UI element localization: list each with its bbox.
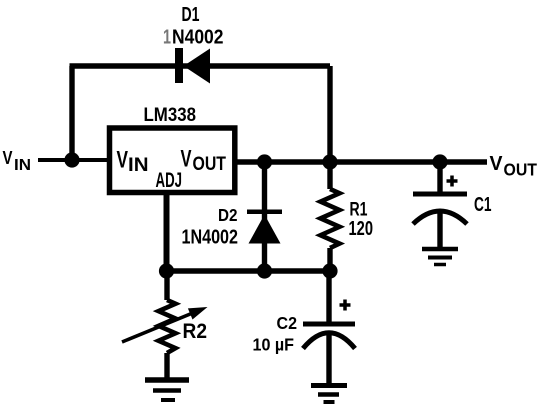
svg-text:IN: IN <box>14 157 31 174</box>
svg-text:10 µF: 10 µF <box>253 335 295 355</box>
svg-text:1N4002: 1N4002 <box>182 226 239 249</box>
svg-text:1: 1 <box>163 27 171 49</box>
svg-text:C2: C2 <box>277 313 298 333</box>
svg-text:C1: C1 <box>474 194 492 216</box>
svg-text:V: V <box>3 148 13 168</box>
svg-text:V: V <box>181 146 192 173</box>
svg-text:V: V <box>490 153 504 175</box>
svg-text:D1: D1 <box>182 4 200 26</box>
svg-text:120: 120 <box>349 218 374 240</box>
svg-text:IN: IN <box>128 155 149 176</box>
svg-text:OUT: OUT <box>504 159 538 179</box>
svg-text:OUT: OUT <box>193 154 227 175</box>
svg-text:LM338: LM338 <box>144 104 197 126</box>
svg-text:R2: R2 <box>183 320 208 343</box>
svg-text:D2: D2 <box>218 205 238 225</box>
svg-text:ADJ: ADJ <box>156 168 183 192</box>
svg-text:N4002: N4002 <box>172 27 224 49</box>
svg-text:V: V <box>117 147 129 174</box>
